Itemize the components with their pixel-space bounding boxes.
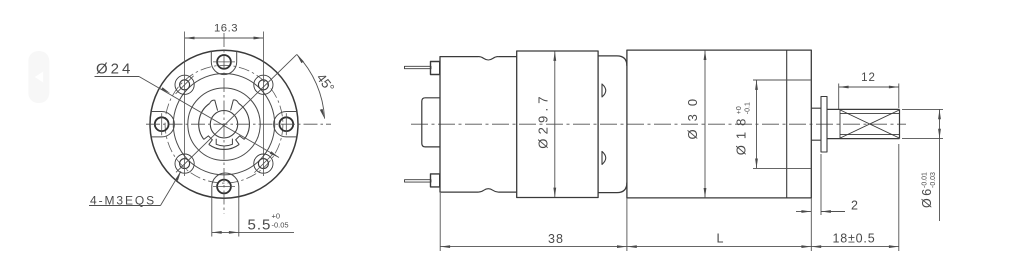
hole upper-right screw bbox=[254, 75, 273, 94]
svg-text:Ø18: Ø18 bbox=[733, 113, 748, 156]
e-clip outer arc right segment bbox=[239, 103, 250, 139]
motor ring section bbox=[517, 51, 598, 198]
svg-text:-0.05: -0.05 bbox=[272, 221, 289, 230]
dimension Ø30 bbox=[704, 51, 706, 198]
svg-text:Ø30: Ø30 bbox=[685, 91, 700, 140]
dimension 2 bbox=[796, 154, 845, 215]
dimension Ø18 +0 -0.1 bbox=[753, 80, 811, 168]
dimension Ø29.7 bbox=[554, 52, 556, 198]
lower-right hole 45 tick bbox=[254, 155, 272, 173]
left hole centerline / ext 16.3 bbox=[184, 32, 186, 177]
brush housing bbox=[422, 98, 440, 147]
output shaft bbox=[827, 109, 900, 138]
dimension 5.5 bbox=[212, 197, 294, 237]
gearbox body bbox=[627, 50, 811, 198]
svg-text:+0: +0 bbox=[272, 212, 281, 221]
dimension 16.3 bbox=[185, 37, 264, 39]
vent slot top bbox=[602, 84, 606, 97]
vertical centerline bbox=[223, 33, 225, 214]
bolt circle Ø24 dash-dot bbox=[165, 65, 283, 183]
e-clip outer arc left segment bbox=[199, 104, 210, 140]
dimension L bbox=[627, 198, 811, 251]
side view centerline bbox=[411, 123, 906, 125]
pocket left bbox=[152, 112, 175, 137]
hole lower-left screw bbox=[175, 154, 194, 173]
svg-text:-0.01: -0.01 bbox=[921, 172, 928, 188]
svg-text:Ø6: Ø6 bbox=[920, 186, 934, 208]
dimension Ø6 -0.01 -0.03 bbox=[902, 109, 943, 221]
svg-text:18±0.5: 18±0.5 bbox=[833, 231, 876, 245]
left hole tick bbox=[161, 113, 163, 135]
hole left M3 bbox=[155, 117, 169, 131]
pocket top bbox=[211, 51, 236, 74]
hole upper-left screw bbox=[175, 75, 194, 94]
svg-text:45°: 45° bbox=[314, 70, 338, 95]
svg-text:16.3: 16.3 bbox=[214, 23, 238, 35]
horizontal centerline bbox=[146, 123, 331, 125]
knurl box bbox=[840, 109, 900, 138]
bearing boss circle bbox=[188, 88, 260, 160]
e-clip left ear inner edge bbox=[210, 100, 218, 111]
dimension 45 degrees arc bbox=[297, 54, 325, 118]
svg-text:5.5: 5.5 bbox=[248, 217, 272, 234]
dimension 18 +/- 0.5 bbox=[811, 144, 899, 251]
dimension 38 bbox=[440, 193, 627, 251]
knurl cross diagonals bbox=[840, 110, 900, 138]
svg-text:2: 2 bbox=[851, 199, 858, 213]
pocket right bbox=[274, 112, 297, 137]
face recess circle bbox=[173, 74, 274, 175]
e-clip right ear inner edge bbox=[231, 100, 239, 111]
top hole tick bbox=[213, 61, 235, 63]
svg-text:12: 12 bbox=[861, 72, 876, 84]
svg-text:38: 38 bbox=[548, 232, 564, 246]
right hole centerline / ext 16.3 bbox=[262, 32, 264, 177]
motor right end cap bbox=[598, 56, 627, 193]
45 degree diameter line bbox=[176, 54, 297, 172]
terminal base bottom bbox=[431, 174, 440, 187]
gearbox internal line bbox=[786, 50, 788, 198]
bottom hole tick bbox=[213, 186, 235, 188]
motor can outline bbox=[440, 57, 517, 193]
svg-text:L: L bbox=[717, 232, 724, 246]
vent slot bottom bbox=[602, 151, 606, 164]
svg-text:Ø29.7: Ø29.7 bbox=[536, 92, 551, 148]
dimension 12 bbox=[839, 84, 899, 110]
svg-text:-0.1: -0.1 bbox=[745, 102, 752, 114]
terminal pin bottom bbox=[405, 180, 432, 182]
shaft circle bbox=[210, 111, 237, 138]
front disc washer bbox=[821, 97, 827, 153]
front hub bbox=[811, 108, 821, 140]
carousel prev button bbox=[28, 51, 49, 103]
can crimp dip top bbox=[479, 57, 499, 60]
e-clip bottom prong bbox=[216, 139, 232, 146]
hole right M3 bbox=[279, 117, 293, 131]
terminal pin top bbox=[405, 66, 432, 68]
terminal base top bbox=[431, 62, 440, 75]
svg-text:Ø24: Ø24 bbox=[96, 61, 133, 78]
hole lower-right screw bbox=[254, 154, 273, 173]
svg-text:+0: +0 bbox=[736, 106, 743, 114]
upper-left hole 45 tick bbox=[176, 76, 194, 94]
right hole tick bbox=[285, 113, 287, 135]
svg-text:-0.03: -0.03 bbox=[930, 172, 937, 188]
e-clip right notch bbox=[236, 136, 245, 145]
hole bottom M3 bbox=[217, 180, 231, 194]
pocket bottom bbox=[212, 173, 239, 197]
hole top M3 bbox=[217, 55, 231, 69]
front view outer circle Ø30 rim bbox=[150, 50, 298, 198]
can crimp dip bottom bbox=[479, 189, 499, 192]
e-clip outer arc bottom segment bbox=[209, 144, 239, 149]
e-clip left notch bbox=[204, 136, 213, 145]
